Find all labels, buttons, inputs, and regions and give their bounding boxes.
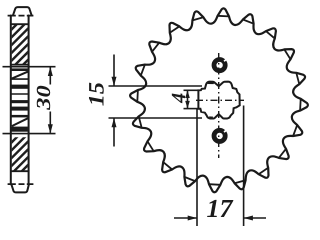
spline band line [11,78,29,80]
label 4 [168,93,190,104]
upper hole notch [224,59,227,61]
dimension line 17 right [244,217,266,219]
upper bolt hole [214,60,225,71]
arrowhead up (30) [48,67,53,76]
svg-text:4: 4 [168,93,190,104]
dimension line 15 upper [113,55,115,86]
hub boundary line upper [11,64,29,66]
hub spline bands (section of splined bore) [12,68,28,131]
arrowhead right (17) [188,216,197,221]
extension line top (4) [184,89,200,91]
arrowhead down (4) [185,101,190,109]
extension line left (17) [196,109,198,226]
tooth root line bottom [11,170,29,172]
extension line top (30) [3,66,56,68]
svg-text:15: 15 [84,82,109,106]
tooth root line top [11,23,29,25]
arrowhead up (4) [185,90,190,98]
arrowhead up (15) [112,118,117,127]
arrowhead left (17) [244,216,253,221]
side view body right edge (wire) [28,16,30,185]
label 30 [33,85,55,111]
svg-text:30: 30 [33,85,55,111]
top tooth cap [13,7,32,15]
extension line bottom (30) [3,133,56,135]
sprocket rim with 20 teeth [130,8,308,192]
arrowhead down (15) [112,77,117,86]
hatching upper section [8,9,32,80]
lower hole notch [224,130,227,132]
label 15 [84,82,109,106]
ink blob bottom bump [209,116,213,118]
top flange line [8,15,34,17]
spline band line [11,93,29,95]
hatching lower section [8,122,32,185]
dimension line 30 [49,68,51,85]
dimension line 15 lower [113,119,115,147]
spline cell diagonal lower [12,118,28,126]
dimension line 4 [187,91,189,108]
extension line top (15) [109,85,203,87]
extension line bottom (15) [109,117,203,119]
svg-text:17: 17 [207,194,234,223]
vertical centerline [218,53,220,158]
bottom flange line [8,183,34,185]
arrowhead down (30) [48,124,53,133]
horizontal centerline [196,99,244,101]
ink blob on left bump [207,82,214,84]
tooth base chords [137,16,300,185]
spline cell diagonal upper [12,72,28,79]
bottom tooth cap [11,184,29,192]
side view body left edge (wire) [10,16,12,185]
dimension line 17 left [174,217,197,219]
lower bolt hole [214,130,225,141]
extension line right (17) [243,106,245,227]
splined centre bore [198,82,239,119]
extension line bottom (4) [184,108,200,110]
